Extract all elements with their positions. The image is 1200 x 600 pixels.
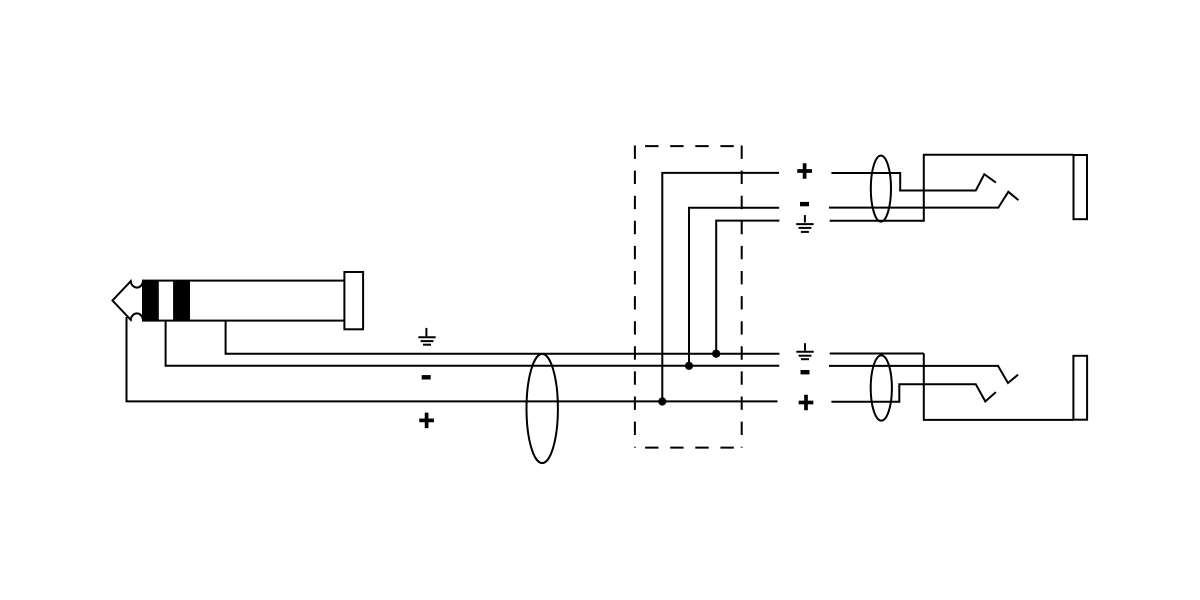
wire: + branch to top socket [662,173,779,402]
ground symbol (left, above shield bus) [418,328,435,345]
TRS plug P1 ring band 1 [143,281,159,321]
TRS plug P1 barrel (sleeve body) [143,281,345,321]
ground symbol (bottom socket) [796,343,813,359]
wire: ground into top socket sleeve [830,220,924,222]
junction node on - bus [685,362,693,370]
label + (left, plus) [419,413,434,429]
dashed adapter box: left edge [634,146,636,448]
wire: + into bottom socket with step and tip contact [831,384,996,402]
ground symbol (top socket) [796,215,813,232]
wire: tip conductor, plug drop + left run of + bus [127,317,778,401]
label - (left, minus) [422,375,431,379]
dashed adapter box: bottom edge [645,447,742,449]
TRS plug P1 end cap [344,272,363,329]
wire: ground branch to top socket [716,221,779,354]
label + (bottom socket) [799,395,814,411]
wire: ring conductor, plug drop + left run of - bus [166,321,780,366]
label - (bottom socket) [801,370,810,374]
top socket J1 sleeve frame [924,155,1074,222]
junction node on + bus [658,397,666,405]
wire: - into top socket with ring contact [829,192,1018,208]
label + (top socket) [797,163,812,179]
dashed adapter box: right edge [741,146,743,448]
cable shield ellipse (bottom socket cable) [871,355,892,420]
junction node on ground bus [712,350,720,358]
dashed adapter box: top edge [645,145,742,147]
TRS plug P1 ring band 2 [173,281,190,321]
cable shield ellipse (left cable) [527,354,558,463]
wire: ground into bottom socket sleeve [830,353,924,355]
bottom socket J2 sleeve frame [924,353,1074,420]
TRS plug P1 tip [113,281,144,320]
bottom socket J2 body [1073,356,1087,420]
top socket J1 body [1074,155,1088,219]
wire: - into bottom socket with ring contact [829,366,1018,383]
wire: - branch to top socket [689,208,779,366]
wire: sleeve conductor, plug drop + left run of ground bus [226,321,780,354]
cable shield ellipse (top socket cable) [871,156,891,222]
label - (top socket) [800,202,809,206]
wire: + into top socket with step and tip contact [831,173,996,191]
